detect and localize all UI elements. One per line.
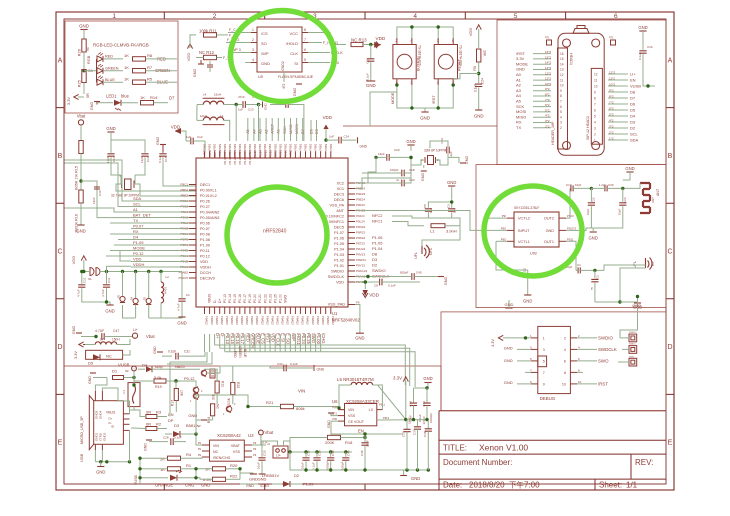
buck U6 body [345, 404, 377, 426]
svg-text:2: 2 [560, 126, 562, 130]
svg-text:RX: RX [516, 120, 522, 125]
svg-text:9: 9 [560, 89, 562, 93]
inductor L2 10uH [160, 272, 162, 283]
column ticks [163, 12, 165, 490]
power symbol GND R22 [240, 472, 253, 474]
wire R13 to VDD [363, 44, 376, 46]
svg-text:2: 2 [252, 38, 254, 42]
svg-text:10K: 10K [180, 390, 184, 397]
svg-text:1: 1 [112, 13, 116, 20]
svg-text:nc: nc [86, 47, 90, 51]
svg-text:GND: GND [76, 229, 85, 234]
svg-text:VIN: VIN [298, 389, 305, 394]
wire U2 VCTL2 [486, 217, 507, 219]
svg-text:VDD: VDD [369, 293, 379, 298]
svg-text:RGB-LED-CLMVB-FKARGB: RGB-LED-CLMVB-FKARGB [93, 43, 149, 48]
svg-text:VDD: VDD [71, 256, 76, 265]
svg-text:VDD: VDD [468, 28, 473, 37]
capacitor C11 4.7uF [106, 272, 108, 284]
power symbol GND UFL [620, 301, 638, 303]
svg-text:R17: R17 [171, 400, 175, 406]
svg-text:32M 8P 10PPM: 32M 8P 10PPM [424, 149, 447, 153]
svg-text:11: 11 [560, 78, 564, 82]
svg-text:RED: RED [233, 351, 237, 358]
svg-text:P0.05/AIN3: P0.05/AIN3 [200, 216, 219, 220]
svg-text:0.1uF: 0.1uF [290, 362, 298, 366]
svg-text:P9: P9 [356, 301, 360, 305]
svg-text:MODE: MODE [516, 61, 528, 66]
svg-text:BLUE: BLUE [243, 349, 247, 357]
ic U1 right pin stubs [348, 182, 355, 184]
svg-text:P9B1: P9B1 [324, 143, 328, 150]
svg-text:P9AD2: P9AD2 [225, 316, 229, 325]
svg-text:0R: 0R [146, 422, 151, 427]
capacitor C24 0.1uF [475, 84, 482, 86]
svg-text:GND: GND [177, 321, 186, 326]
svg-text:P1.09: P1.09 [200, 243, 210, 247]
wire L1 to UFL [445, 218, 460, 226]
svg-text:S5: S5 [117, 295, 121, 299]
svg-text:P9S: P9S [501, 226, 506, 230]
svg-text:B05K 1% R15: B05K 1% R15 [75, 166, 79, 190]
svg-text:4: 4 [452, 39, 454, 43]
svg-text:GND3: GND3 [103, 432, 107, 441]
svg-text:FLASH-SPIU806C-6JE: FLASH-SPIU806C-6JE [278, 75, 314, 79]
wire R6 to C24 [478, 62, 480, 83]
svg-text:1uF: 1uF [238, 108, 243, 112]
wire R21 to U6 VIN [294, 407, 345, 410]
svg-text:Date:: Date: [443, 481, 462, 490]
svg-text:1: 1 [223, 412, 225, 416]
capacitor C42 100pF [426, 388, 428, 403]
svg-text:1: 1 [190, 399, 192, 403]
svg-text:P9I: P9I [502, 214, 506, 218]
svg-text:3: 3 [252, 48, 254, 52]
svg-text:6: 6 [560, 105, 562, 109]
test point TP2 [611, 40, 616, 45]
svg-text:GND: GND [504, 345, 513, 350]
wire R14 to D7 net [154, 102, 169, 104]
svg-text:C18: C18 [409, 168, 415, 172]
svg-text:RF: RF [651, 260, 655, 266]
svg-text:DCCH: DCCH [200, 271, 211, 275]
svg-text:SWDIO: SWDIO [331, 269, 344, 273]
svg-text:2: 2 [437, 39, 439, 43]
svg-text:C15: C15 [164, 156, 168, 162]
svg-text:TS-1187A-020: TS-1187A-020 [417, 45, 421, 66]
svg-text:1: 1 [594, 138, 596, 142]
svg-text:P1.02: P1.02 [334, 258, 344, 262]
svg-text:0.1uF: 0.1uF [366, 73, 370, 81]
svg-text:TS-1187A-020: TS-1187A-020 [459, 45, 463, 66]
svg-text:R22: R22 [230, 474, 238, 479]
svg-text:P9B1: P9B1 [304, 143, 308, 150]
svg-text:P9B1: P9B1 [203, 143, 207, 150]
svg-text:P0.04/AIN2: P0.04/AIN2 [200, 210, 219, 214]
svg-text:4: 4 [560, 115, 562, 119]
svg-text:7:00: 7:00 [524, 481, 540, 490]
svg-text:14*2: 14*2 [545, 61, 552, 65]
wire X1 pin1 to IC [120, 175, 123, 184]
svg-text:GND: GND [246, 484, 254, 488]
svg-text:5: 5 [560, 110, 562, 114]
resistor R10 30K [215, 381, 219, 393]
svg-text:ID: ID [111, 425, 115, 429]
svg-text:HEADER_16P: HEADER_16P [551, 121, 555, 145]
svg-text:LX: LX [369, 408, 374, 412]
capacitor C44 100pF [345, 452, 347, 457]
resistor R17 10K [175, 381, 177, 388]
svg-text:P9J24: P9J24 [356, 214, 365, 218]
svg-text:GND: GND [193, 69, 197, 78]
svg-text:A5: A5 [516, 99, 522, 104]
svg-text:4.7uF: 4.7uF [177, 303, 181, 311]
svg-text:BAT_DET: BAT_DET [133, 213, 151, 218]
crystal X1 32.768K [125, 179, 132, 190]
svg-text:CNG: CNG [185, 483, 194, 488]
svg-text:/RST: /RST [432, 95, 436, 104]
svg-text:C33: C33 [409, 178, 415, 182]
svg-text:VUSB: VUSB [118, 363, 130, 368]
svg-text:P0.29/AN5: P0.29/AN5 [233, 150, 237, 165]
svg-text:C24: C24 [481, 78, 485, 84]
svg-text:3*2: 3*2 [545, 119, 550, 123]
svg-text:GND: GND [406, 139, 415, 144]
power symbol GND ic topright [357, 137, 359, 143]
svg-text:C16: C16 [647, 45, 653, 49]
svg-text:VDD: VDD [171, 125, 180, 130]
svg-text:1K: 1K [140, 95, 145, 100]
svg-text:SI: SI [294, 61, 298, 66]
LED D7 LED1 [97, 102, 113, 104]
power symbol GND R16 [77, 224, 84, 226]
inductor L1 3.9nH [431, 224, 445, 228]
wire R7 to GREEN net [146, 70, 178, 72]
svg-text:P0.01XL2: P0.01XL2 [200, 194, 217, 198]
svg-text:DP: DP [168, 419, 174, 423]
svg-text:ANT: ANT [651, 197, 655, 203]
wire R25 to 3.3V [83, 83, 85, 95]
svg-text:VDD: VDD [200, 260, 208, 264]
svg-text:9: 9 [594, 90, 596, 94]
svg-text:P911: P911 [567, 237, 574, 241]
svg-text:/CHG: /CHG [260, 484, 269, 488]
wire OUT2 to C10 [566, 188, 570, 218]
svg-text:A2: A2 [516, 83, 522, 88]
svg-text:GREEN: GREEN [105, 67, 119, 71]
svg-text:P9C1: P9C1 [180, 183, 188, 187]
svg-text:EN: EN [358, 429, 364, 434]
svg-text:NC: NC [213, 450, 219, 454]
wire VBUS to F1 [95, 378, 107, 392]
svg-text:R8: R8 [147, 53, 153, 58]
svg-text:P1.08: P1.08 [200, 238, 210, 242]
svg-text:P9AD2: P9AD2 [265, 316, 269, 325]
svg-text:S4: S4 [130, 297, 134, 301]
wire F_HOLD net [308, 42, 322, 44]
svg-text:F_C: F_C [229, 28, 236, 32]
svg-text:CLK: CLK [290, 51, 298, 56]
svg-text:3.3V: 3.3V [74, 351, 78, 359]
antenna switch U2 body [514, 212, 559, 247]
wire bottom gnd rail [290, 469, 429, 471]
header HEAD1 pin strip [558, 48, 568, 149]
pin Li+ Vbat [132, 333, 137, 338]
svg-text:R26: R26 [77, 48, 82, 56]
svg-text:2*2: 2*2 [545, 124, 550, 128]
svg-text:C48: C48 [360, 450, 364, 456]
svg-text:P9V23: P9V23 [356, 253, 365, 257]
svg-text:0.1uF: 0.1uF [474, 84, 478, 92]
wire rail to C4 top [172, 271, 182, 273]
svg-text:GND: GND [293, 88, 297, 97]
resistor R26 [82, 39, 86, 52]
svg-text:GND: GND [144, 443, 148, 451]
svg-text:Vbat: Vbat [146, 334, 155, 339]
svg-text:GREEN: GREEN [238, 346, 242, 358]
svg-text:10: 10 [560, 84, 564, 88]
svg-text:10: 10 [594, 84, 598, 88]
svg-text:P9B1: P9B1 [273, 143, 277, 150]
svg-text:22uF: 22uF [366, 440, 370, 447]
svg-text:VSS_PAD: VSS_PAD [328, 303, 345, 307]
svg-text:P94: P94 [332, 406, 337, 410]
solder jumper S4 [135, 272, 137, 299]
svg-text:P0.14: P0.14 [228, 294, 232, 303]
svg-text:3.9nH: 3.9nH [446, 229, 457, 234]
svg-text:P9S: P9S [501, 237, 506, 241]
wire R8 to RED net [146, 58, 178, 60]
svg-text:R7: R7 [147, 65, 153, 70]
svg-text:Vbat: Vbat [265, 430, 274, 435]
svg-text:VSS: VSS [233, 450, 241, 454]
svg-text:VDDH: VDDH [133, 262, 144, 267]
marker circle antenna switch [484, 186, 582, 276]
svg-text:D8: D8 [372, 252, 378, 257]
capacitor C38 1000pF [427, 420, 429, 429]
flash U5 pin stubs left [251, 32, 257, 34]
LED BLUE of RGB package [97, 79, 103, 85]
svg-text:EN: EN [630, 77, 636, 82]
svg-text:P9R24: P9R24 [356, 236, 366, 240]
svg-text:GND: GND [261, 61, 270, 66]
svg-text:RED: RED [105, 55, 113, 59]
power symbol GND C4 [178, 316, 185, 318]
svg-text:P9AD2: P9AD2 [215, 316, 219, 325]
svg-text:C: C [57, 249, 62, 256]
svg-text:19nF: 19nF [92, 197, 96, 204]
svg-text:XC2: XC2 [337, 181, 344, 185]
svg-text:GND: GND [504, 358, 513, 363]
svg-text:3: 3 [410, 81, 412, 85]
wire R5 to BLUE net [146, 81, 178, 83]
wire N825 nets [168, 368, 200, 370]
svg-text:GND: GND [96, 470, 105, 475]
svg-text:GND: GND [90, 102, 94, 111]
svg-text:30K: 30K [212, 393, 216, 400]
svg-text:7: 7 [304, 38, 306, 42]
wire bus ic bottom [204, 334, 206, 352]
svg-text:VCC: VCC [290, 31, 299, 36]
svg-text:P9B1: P9B1 [329, 143, 333, 150]
wire F_CLK net [308, 52, 330, 54]
row ticks [56, 107, 674, 109]
antenna ANT meander [640, 183, 650, 213]
svg-text:P0.20: P0.20 [253, 294, 257, 303]
svg-text:GND: GND [355, 336, 364, 341]
svg-text:7: 7 [594, 102, 596, 106]
svg-text:VDD: VDD [323, 115, 332, 120]
transistor Q1 [193, 393, 199, 399]
wire F_WP net [230, 52, 251, 54]
svg-text:GND4: GND4 [99, 410, 103, 419]
svg-text:P0.12: P0.12 [200, 254, 210, 258]
marker circle flash [231, 11, 335, 102]
svg-text:U6: U6 [332, 399, 338, 404]
capacitor C26 0.1uF [370, 45, 372, 59]
wire buttons top rail [397, 27, 453, 38]
connector USB micro body [89, 396, 93, 450]
svg-text:C12: C12 [197, 135, 203, 139]
svg-text:3.3V: 3.3V [516, 56, 525, 61]
svg-text:R14: R14 [150, 95, 158, 100]
header HEAD1 outline [558, 33, 604, 155]
wire C49 junction drops [235, 105, 237, 142]
svg-text:SIP-12 HEAD2: SIP-12 HEAD2 [586, 116, 590, 140]
svg-text:P1.06: P1.06 [334, 236, 344, 240]
header HEAD1 mount holes [563, 39, 571, 47]
svg-text:1K: 1K [160, 467, 165, 472]
svg-text:nc: nc [590, 286, 594, 290]
svg-text:R19: R19 [155, 385, 162, 389]
svg-text:P9N24: P9N24 [356, 225, 366, 229]
svg-text:Li+: Li+ [133, 328, 138, 332]
wire BLUE led to R5 [103, 81, 123, 83]
svg-text:D: D [57, 344, 62, 351]
svg-text:下午: 下午 [509, 481, 524, 490]
power symbol GND U2 [524, 294, 531, 296]
wire C24 to GND [478, 88, 480, 111]
svg-text:SWDIO: SWDIO [372, 268, 386, 273]
wire F_SO net [226, 42, 251, 44]
svg-text:6*2: 6*2 [545, 103, 550, 107]
svg-text:4: 4 [594, 120, 596, 124]
svg-text:VBAT: VBAT [231, 444, 241, 448]
svg-text:P9T23: P9T23 [356, 242, 365, 246]
svg-text:VDD: VDD [336, 280, 344, 284]
svg-text:2*2: 2*2 [609, 131, 614, 135]
svg-text:2: 2 [594, 132, 596, 136]
svg-text:U5: U5 [258, 75, 263, 79]
ic U1 nRF52840 body [196, 158, 348, 307]
svg-text:RX: RX [133, 229, 139, 234]
svg-text:4.7UF: 4.7UF [95, 329, 104, 333]
svg-text:VSS_PA: VSS_PA [330, 203, 345, 207]
svg-text:NFC1: NFC1 [372, 219, 383, 224]
svg-text:7*2: 7*2 [609, 101, 614, 105]
svg-text:ORANGE: ORANGE [155, 483, 173, 488]
svg-text:R4: R4 [186, 452, 192, 457]
wire X1 pin2 to IC [134, 175, 135, 184]
svg-text:1K: 1K [124, 76, 129, 81]
svg-text:GND: GND [88, 376, 92, 384]
svg-text:4*2: 4*2 [545, 114, 550, 118]
svg-text:12: 12 [560, 73, 564, 77]
flash chip U5 body [257, 27, 302, 72]
svg-text:D: D [667, 344, 672, 351]
svg-text:C17: C17 [112, 156, 116, 162]
svg-text:E: E [58, 440, 63, 447]
svg-text:C8: C8 [374, 284, 378, 288]
svg-text:B: B [58, 153, 63, 160]
svg-text:4.7uF: 4.7uF [77, 289, 81, 297]
svg-text:P0.17: P0.17 [243, 294, 247, 303]
svg-text:C37: C37 [412, 429, 416, 435]
svg-text:A1: A1 [133, 207, 139, 212]
svg-text:/CS: /CS [261, 31, 268, 36]
svg-text:P9AD2: P9AD2 [301, 316, 305, 325]
svg-text:10*2: 10*2 [545, 82, 552, 86]
svg-text:INPUT: INPUT [518, 229, 530, 233]
svg-text:10uF: 10uF [257, 462, 261, 469]
wire usb top rail [133, 368, 135, 371]
svg-text:D3: D3 [630, 119, 636, 124]
svg-text:GND: GND [264, 103, 268, 111]
svg-text:VDD: VDD [186, 53, 191, 62]
buck U6 stubs [338, 409, 345, 411]
capacitor C50 route [286, 101, 288, 108]
svg-text:D+: D+ [109, 417, 113, 421]
capacitor C36 19nF [96, 181, 98, 186]
svg-text:4: 4 [252, 58, 254, 62]
svg-text:14: 14 [560, 62, 564, 66]
svg-text:SWO: SWO [598, 358, 609, 363]
header section box [497, 20, 666, 165]
svg-text:5: 5 [514, 13, 518, 20]
svg-text:P9B1: P9B1 [268, 143, 272, 150]
svg-text:13: 13 [560, 68, 564, 72]
svg-text:P9B1: P9B1 [299, 143, 303, 150]
wire LED1 to R14 [121, 102, 138, 104]
svg-text:P9AD2: P9AD2 [286, 316, 290, 325]
power symbol GND C21 C11 [105, 300, 108, 303]
svg-text:P9B1: P9B1 [278, 143, 282, 150]
svg-text:R1: R1 [186, 463, 192, 468]
wire L4 L3 left link [196, 105, 198, 121]
svg-text:GND: GND [327, 420, 331, 428]
wire NFC2 route [392, 216, 428, 218]
RF section box [476, 165, 666, 308]
svg-text:200K: 200K [325, 440, 335, 445]
svg-text:P9W24: P9W24 [356, 258, 366, 262]
led CNG orange [152, 477, 168, 479]
svg-text:P1.00: P1.00 [278, 294, 282, 303]
svg-text:P9D23: P9D23 [356, 192, 366, 196]
svg-text:P9AD2: P9AD2 [311, 316, 315, 325]
wire pin8 stub [577, 371, 583, 373]
svg-text:P0.22: P0.22 [263, 294, 267, 303]
svg-text:DEC1: DEC1 [200, 183, 210, 187]
svg-text:15nH: 15nH [112, 338, 120, 342]
svg-text:A1: A1 [516, 77, 522, 82]
svg-text:47nF: 47nF [238, 95, 245, 99]
svg-text:TP1: TP1 [545, 37, 550, 40]
svg-text:VBUS: VBUS [208, 293, 212, 303]
svg-text:D+: D+ [218, 299, 222, 303]
svg-text:10uH: 10uH [164, 287, 168, 294]
svg-text:C19: C19 [146, 156, 150, 162]
svg-text:P9B1: P9B1 [258, 143, 262, 150]
